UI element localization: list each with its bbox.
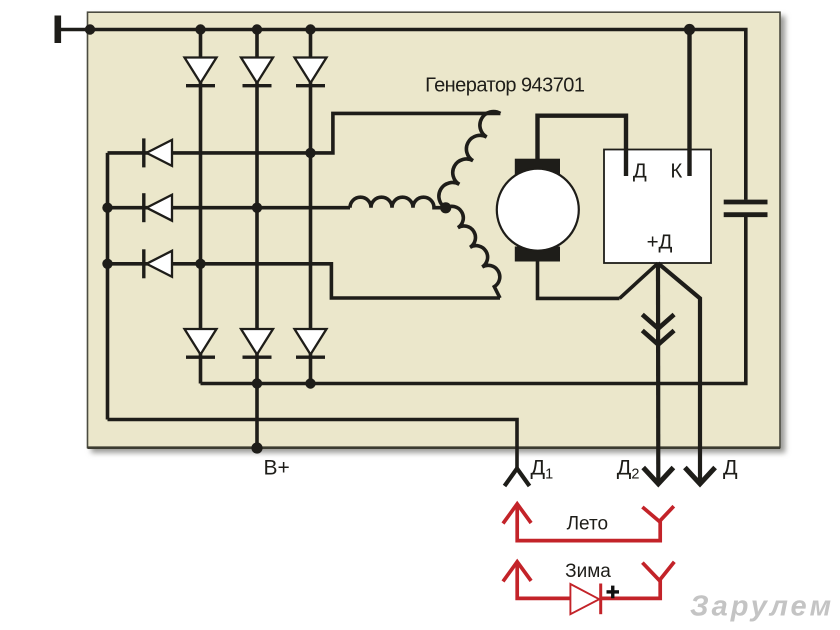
- wire: bottom bus (rectifier minus row to capacitor): [201, 217, 746, 384]
- pin stub D inside regulator: [624, 150, 628, 177]
- diode VD4 (bottom row, col 1, negative plate): [185, 329, 217, 357]
- junction dot: lug to panel: [85, 24, 95, 34]
- junction dot: row2 left bus: [102, 203, 112, 213]
- junction dot: row1 col3: [305, 148, 315, 158]
- wire: +D fan right diagonal and D output vertical: [658, 263, 700, 484]
- rotor slip-ring circle: [497, 169, 579, 251]
- junction dot: top bus col1: [195, 24, 205, 34]
- junction dot: row3 left bus: [102, 259, 112, 269]
- stator coil L1 (top phase): [439, 112, 501, 208]
- junction dot: top bus K wire: [684, 24, 695, 35]
- terminal B+ external lug: [55, 16, 62, 44]
- diode VD9 (auxiliary, row 3, points left): [144, 249, 172, 278]
- junction dot: top bus col3: [305, 24, 315, 34]
- beige schematic panel: [88, 12, 781, 447]
- svg-text:Д1: Д1: [531, 456, 554, 483]
- diode VD6 (bottom row, col 3): [295, 329, 327, 357]
- svg-text:+Д: +Д: [647, 231, 673, 254]
- svg-text:Д: Д: [633, 160, 647, 183]
- red summer jumper: up arrow left: [503, 504, 674, 541]
- wire: +D output D2 vertical: [656, 263, 660, 484]
- junction dot: row2 col2: [252, 203, 262, 213]
- rotor bottom brush: [515, 247, 560, 262]
- fork connector D1: [505, 469, 530, 487]
- rotor top brush: [515, 159, 560, 175]
- svg-text:Генератор 943701: Генератор 943701: [425, 75, 585, 97]
- arrowhead of D2 output: [643, 468, 673, 484]
- diode VD3 (top row, col 3): [295, 58, 327, 86]
- junction dot: bottom bus col3: [305, 378, 315, 388]
- wire: lug to panel: [61, 28, 92, 32]
- wire: B+ output drop: [255, 384, 259, 449]
- wire: rotor top brush lead to regulator D: [538, 116, 627, 176]
- svg-text:В+: В+: [264, 457, 290, 480]
- wire: D1 output line: [108, 420, 518, 469]
- stator coil L3 (bottom phase): [446, 206, 500, 298]
- svg-text:Д2: Д2: [617, 456, 640, 483]
- wire: phase row 3 with step down to stator coil 3: [108, 264, 501, 298]
- red winter jumper: up arrow left: [503, 562, 674, 599]
- diode VD2 (top row, col 2): [241, 58, 273, 86]
- junction dot: B+ at panel edge: [251, 442, 262, 453]
- diode VD1 (top row, col 1, positive plate): [185, 58, 217, 86]
- stator coil L2 (middle phase): [350, 197, 446, 208]
- label: plus polarity: [607, 586, 620, 599]
- diode VD5 (bottom row, col 2): [241, 329, 273, 357]
- wire: column 3 vertical: [309, 30, 313, 384]
- svg-text:Лето: Лето: [567, 514, 608, 535]
- wire: phase row 1 with step up to stator coil 1: [108, 113, 501, 152]
- wire: phase row 2 to stator coil 2: [108, 206, 351, 210]
- junction dot: bottom bus col2: [252, 378, 262, 388]
- wire: rotor bottom brush lead: [538, 255, 620, 298]
- svg-text:К: К: [670, 160, 682, 183]
- wire: column 1 vertical: [199, 30, 203, 384]
- red diode VD10 (winter): [570, 584, 600, 615]
- svg-text:Зима: Зима: [565, 561, 611, 582]
- wire: left bus vertical: [106, 153, 110, 420]
- double chevron arrow on D2 line: [642, 315, 674, 345]
- wire: K pin to top bus: [687, 30, 691, 177]
- svg-text:Зарулем: Зарулем: [690, 591, 834, 623]
- diode VD7 (auxiliary, row 1, points left): [144, 138, 172, 167]
- svg-text:Д: Д: [723, 456, 738, 480]
- junction dot: row3 col1: [195, 259, 205, 269]
- wire: column 2 vertical: [255, 30, 259, 384]
- capacitor C1 plate top: [724, 200, 768, 205]
- capacitor C1 plate bottom: [724, 212, 768, 217]
- diode VD8 (auxiliary, row 2, points left): [144, 193, 172, 222]
- wire: +D fan left diagonal to rotor lead: [620, 263, 659, 298]
- arrowhead of D output: [685, 468, 715, 484]
- wire: top bus from lug to capacitor corner: [90, 30, 746, 200]
- regulator box U1: [604, 150, 711, 264]
- junction dot: stator star point: [440, 202, 451, 213]
- panel bottom dark edge: [88, 446, 781, 449]
- junction dot: top bus col2: [252, 24, 262, 34]
